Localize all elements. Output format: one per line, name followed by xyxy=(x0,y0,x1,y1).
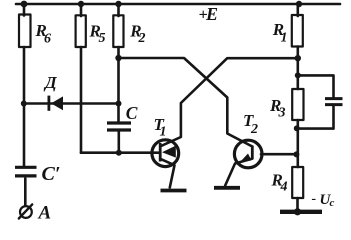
svg-text:E: E xyxy=(205,4,218,24)
svg-text:A: A xyxy=(38,203,52,222)
svg-text:2: 2 xyxy=(138,31,146,46)
svg-text:Д: Д xyxy=(43,73,58,92)
svg-text:1: 1 xyxy=(281,31,288,46)
svg-text:1: 1 xyxy=(160,125,167,140)
svg-text:C′: C′ xyxy=(42,163,61,185)
svg-text:C: C xyxy=(126,103,138,123)
svg-text:6: 6 xyxy=(44,31,51,46)
svg-text:3: 3 xyxy=(278,106,286,121)
svg-text:-: - xyxy=(312,192,317,207)
svg-text:4: 4 xyxy=(280,180,288,195)
svg-text:2: 2 xyxy=(250,122,258,137)
svg-text:5: 5 xyxy=(99,31,106,46)
svg-text:c: c xyxy=(330,197,335,209)
